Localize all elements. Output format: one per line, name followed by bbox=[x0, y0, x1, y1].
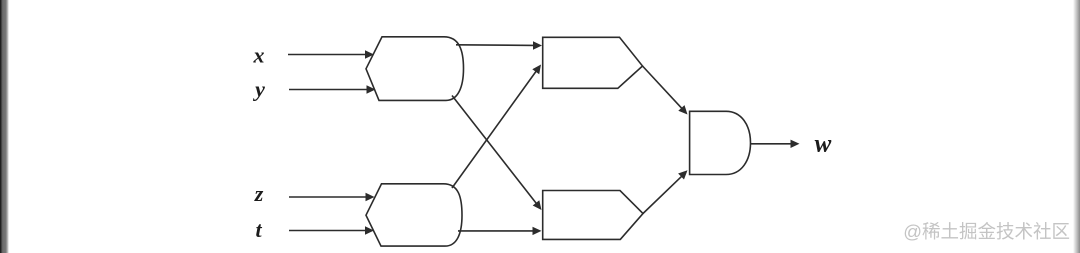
svg-text:@稀土掘金技术社区: @稀土掘金技术社区 bbox=[903, 221, 1070, 242]
wire U1 output w bbox=[751, 143, 792, 145]
wire input z bbox=[289, 196, 367, 198]
wire input x bbox=[288, 54, 367, 56]
svg-text:x: x bbox=[253, 43, 265, 68]
wire G4 to U1 bbox=[643, 176, 682, 213]
gate G4 (bottom-middle pentagon) bbox=[543, 191, 643, 240]
wire G2 to G4 (bottom straight) bbox=[458, 230, 534, 232]
svg-text:t: t bbox=[255, 217, 262, 242]
gate U1 AND bbox=[690, 111, 751, 174]
wire input y bbox=[289, 89, 368, 91]
gate G2 (bottom-left, inputs z,t) bbox=[366, 184, 462, 246]
gate G1 (top-left, inputs x,y) bbox=[366, 37, 464, 101]
gate G3 (top-middle pentagon) bbox=[543, 37, 643, 88]
wire G2 to G3 (cross up) bbox=[452, 71, 536, 188]
wire input t bbox=[289, 230, 367, 232]
svg-text:w: w bbox=[815, 131, 832, 158]
wire G3 to U1 bbox=[643, 66, 683, 109]
wire G1 to G4 (cross down) bbox=[452, 96, 537, 204]
wire G1 to G3 (top straight) bbox=[456, 44, 535, 47]
svg-text:z: z bbox=[254, 181, 264, 206]
